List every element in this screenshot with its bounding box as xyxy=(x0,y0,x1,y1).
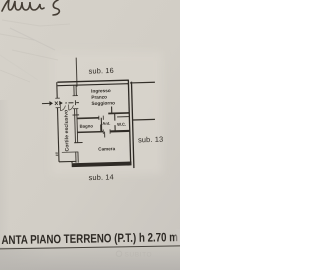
room label Ingresso Pranzo Soggiorno xyxy=(91,88,115,106)
camera-courtyard door jamb tick xyxy=(74,141,82,143)
threshold tick across courtyard xyxy=(62,151,78,153)
svg-text:Bagno: Bagno xyxy=(80,123,94,128)
paper background xyxy=(0,0,180,270)
darker strip at bottom of photo xyxy=(0,247,180,270)
Bagno door jambs xyxy=(98,116,100,120)
svg-text:SUBITO: SUBITO xyxy=(125,252,153,259)
boundary line right upper xyxy=(130,81,155,84)
unit left wall (double, with entrance and camera door gaps) xyxy=(74,85,78,163)
subito watermark xyxy=(116,251,152,259)
W.C. top inner line xyxy=(117,116,129,118)
svg-text:ANTA PIANO TERRENO (P.T.) h 2.: ANTA PIANO TERRENO (P.T.) h 2.70 m xyxy=(1,230,178,247)
door jamb ticks unit entrance xyxy=(73,95,78,97)
right wall outer xyxy=(131,82,133,168)
boundary line right middle xyxy=(133,118,155,121)
boundary thin line above plan xyxy=(75,58,78,87)
Bagno top wall xyxy=(77,117,99,120)
window tick in left wall xyxy=(72,114,79,116)
gate jamb ticks xyxy=(55,97,59,99)
Ant / W.C. divider xyxy=(114,113,116,120)
small dashes outside courtyard xyxy=(55,153,58,155)
top wall inner xyxy=(57,84,128,86)
bottom wall left step xyxy=(71,161,73,163)
Ant block top wall (thick) xyxy=(108,112,129,115)
svg-text:Camera: Camera xyxy=(98,146,115,151)
svg-text:Pranzo: Pranzo xyxy=(91,94,107,99)
right wall inner xyxy=(128,80,130,162)
top wall outer xyxy=(57,80,128,82)
caption PIANTA PIANO TERRENO xyxy=(0,230,182,249)
courtyard bottom wall xyxy=(59,160,76,162)
svg-text:Ingresso: Ingresso xyxy=(91,88,111,94)
svg-text:Cortile esclusivo: Cortile esclusivo xyxy=(63,110,70,152)
Camera top wall right part (dark) xyxy=(110,130,130,133)
entrance arrow (dash-dot with chevrons) xyxy=(42,100,79,106)
svg-text:sub. 16: sub. 16 xyxy=(88,66,114,76)
Camera top wall left part xyxy=(77,131,103,134)
stub wall above Ant xyxy=(111,106,113,113)
svg-text:Ant.: Ant. xyxy=(102,121,110,126)
svg-text:sub. 14: sub. 14 xyxy=(88,172,114,182)
courtyard left wall xyxy=(56,82,58,98)
svg-text:sub. 13: sub. 13 xyxy=(138,135,164,145)
door swing entrance leaf xyxy=(69,104,74,110)
faint creases upper left xyxy=(10,28,55,50)
faint bleed-through marks upper left xyxy=(0,20,70,82)
door swing gate leaf xyxy=(60,105,65,111)
svg-text:W.C.: W.C. xyxy=(117,122,126,127)
handwriting top-left xyxy=(2,0,59,15)
lighter printed area behind plan xyxy=(52,52,162,174)
Bagno / Ant divider xyxy=(100,118,102,132)
svg-text:Soggiorno: Soggiorno xyxy=(91,100,115,106)
right edge fade on caption xyxy=(176,229,181,244)
Camera door jambs and leaf xyxy=(102,130,104,134)
bottom wall (thick) xyxy=(72,162,132,168)
